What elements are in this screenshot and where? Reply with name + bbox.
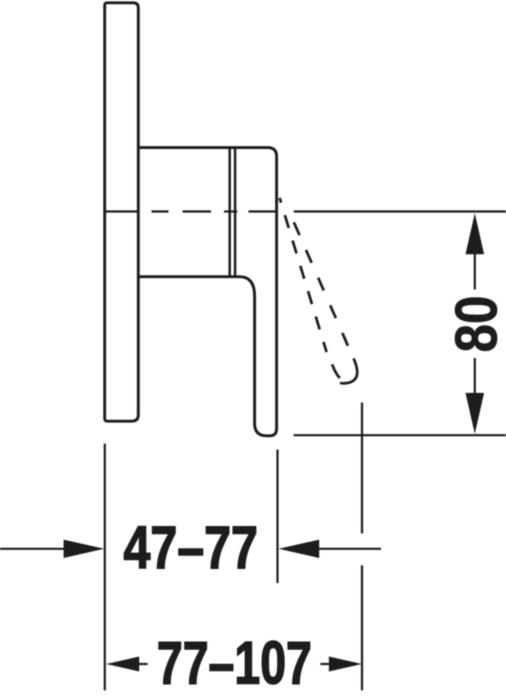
arrowhead 80 down — [466, 393, 485, 434]
extension line: swung lever tip (vertical, upper part) — [361, 403, 363, 534]
centerline solid segment across plate — [104, 210, 139, 212]
svg-text:47–77: 47–77 — [123, 514, 258, 581]
svg-text:80: 80 — [444, 296, 506, 353]
arrowhead 80 up — [466, 213, 485, 254]
extension line: plate face (left, vertical) — [104, 444, 106, 691]
dashed lever end cap hook — [340, 358, 357, 383]
dashed lever (swung position) left edge — [280, 198, 327, 352]
dashed lever rounded end cap — [332, 364, 340, 378]
dimension 77-107 left stub — [139, 663, 148, 665]
centerline dash 4 — [249, 210, 278, 212]
dimension line 80 (lower segment) — [474, 358, 476, 397]
arrowhead 77-107 right (points right) — [329, 657, 362, 672]
arrowhead 47-77 right (points left) — [279, 540, 320, 558]
centerline dash 2 — [183, 210, 212, 212]
joint double line (left) — [228, 149, 231, 276]
extension line: swung lever tip (vertical, lower part) — [361, 565, 363, 690]
dimension 47-77 left tail — [0, 548, 64, 550]
extension line: lever front (vertical) — [276, 450, 278, 584]
dimension line 80 (upper segment) — [474, 252, 476, 290]
dimension 77-107 right stub — [320, 663, 329, 665]
dimension extension line: lever bottom extended right (80 bottom) — [294, 434, 506, 436]
arrowhead 47-77 left (points right) — [64, 540, 105, 558]
joint double line (right) — [234, 149, 237, 276]
dashed lever (swung position) right edge — [294, 222, 348, 346]
arrowhead 77-107 left (points left) — [106, 657, 139, 672]
wall plate (escutcheon, side profile) — [105, 3, 139, 421]
dimension extension line: centerline extended right (80 top) — [294, 210, 506, 212]
svg-text:77–107: 77–107 — [157, 630, 312, 697]
centerline dash 3 (across joint) — [224, 210, 237, 212]
centerline dash 1 — [152, 210, 169, 212]
mixer body and lever outline — [138, 148, 276, 436]
dimension 47-77 right tail — [319, 548, 381, 550]
